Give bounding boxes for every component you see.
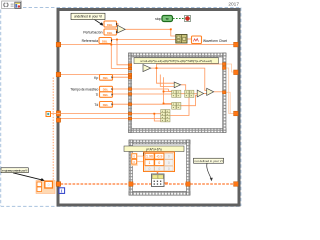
wire: e2 wire into C3 [132, 118, 161, 120]
svg-text:y=A*x+b*u: y=A*x+b*u [146, 147, 162, 151]
tooltip label: not defined in your VI [194, 158, 224, 163]
control terminal Kp (DBL) [94, 75, 113, 81]
svg-text:2017: 2017 [228, 2, 239, 8]
wire: Tiempo de muestreo into structure [113, 88, 130, 90]
svg-text:DBL: DBL [103, 76, 109, 80]
svg-text:0: 0 [168, 155, 170, 159]
wire: Ti into C1 [132, 93, 172, 95]
wire: e out of T1 [151, 68, 207, 90]
op-amp triangle T4 [207, 88, 214, 95]
toolbar icon box top-left [2, 1, 22, 9]
wire: bundle -> chart [187, 38, 192, 40]
wire: e branch up to right tunnel [157, 64, 223, 68]
wire: T4 out -> right tunnel [214, 91, 223, 93]
svg-text:u=u1+Kp*(e-e1)+(Kp*h/Ti)*e+(Kp: u=u1+Kp*(e-e1)+(Kp*h/Ti)*e+(Kp*Td/h)*(e-… [140, 59, 212, 63]
control terminal Ti (DBL) [96, 92, 113, 98]
control terminal s (DBL) [101, 21, 117, 27]
pointer arrow from label to dashed wire [207, 163, 213, 181]
frame bottom band [129, 129, 227, 133]
tunnel right bottom (2D array) [234, 182, 239, 187]
compound node C2 [172, 102, 181, 109]
wire: matrix output down to AxB node [157, 172, 159, 175]
wire: T3 out -> T4 [204, 93, 207, 95]
svg-text:Tiempo de muestreo: Tiempo de muestreo [70, 87, 98, 91]
tunnel right y44.6 [234, 42, 239, 47]
shift register stack left [56, 111, 60, 116]
compound node C1 [172, 90, 181, 97]
wire: branch down into structure tunnel 2 [111, 45, 129, 69]
svg-text:1.96: 1.96 [146, 155, 153, 159]
wire: u1 vertical branch [160, 75, 174, 87]
wire: local var to shift register [51, 113, 57, 115]
svg-text:0: 0 [149, 167, 151, 171]
frame right band [223, 53, 226, 133]
while loop border [58, 10, 239, 206]
small gray icon [11, 4, 14, 5]
svg-text:DBL: DBL [103, 103, 109, 107]
structure-2 tunnels on dashed wire [129, 182, 133, 186]
structure-2 label box [124, 146, 184, 152]
compound node C4 [185, 90, 194, 97]
svg-text:undefined in your VI: undefined in your VI [74, 15, 102, 19]
iteration terminal [i] [59, 188, 65, 194]
wire: left loop tunnel long wire to right loop tunnel [61, 44, 234, 46]
junction dots [110, 28, 171, 114]
wire: S_C (u out) down joins [226, 92, 234, 113]
svg-text:1: 1 [149, 161, 151, 165]
svg-text:0: 0 [48, 183, 50, 187]
wire: triangle output -> joins vertical to bundle [125, 28, 171, 30]
tunnel right y72 [234, 70, 239, 75]
tooltip label: undefined in your VI [71, 13, 105, 19]
frame left band [129, 53, 132, 133]
compound node op marks [162, 92, 192, 121]
structure-1 right tunnels [223, 63, 226, 94]
wire: 2D array dashed vertical outside loop [53, 78, 54, 185]
bundle node [176, 35, 187, 44]
svg-text:DBL: DBL [102, 39, 108, 43]
svg-text:stop: stop [155, 17, 161, 21]
index boxes [131, 153, 138, 166]
control terminal Tiempo de muestreo (DBL) [70, 86, 113, 92]
wire: Kp vertical with branches [164, 77, 172, 103]
wire: Td into structure [113, 103, 130, 105]
wire: h into C1 [169, 89, 172, 91]
wire: Referencia branch down into structure tunnel [117, 40, 129, 65]
svg-text:DBL: DBL [107, 31, 113, 35]
svg-text:-0.9: -0.9 [156, 155, 162, 159]
wire: stop dashed green [173, 18, 184, 20]
structure-1 left tunnels [128, 64, 131, 120]
op-amp triangle T3 [197, 90, 203, 97]
wire: S_A tunnel to loop right tunnel 1 [226, 64, 234, 72]
selection marquee dashed rectangle [1, 8, 241, 207]
tunnel left y74.5 [56, 72, 61, 77]
flat sequence frame top band [129, 53, 227, 133]
empty array constant (bottom-left outside loop) [36, 181, 55, 194]
op-amp triangle T1 (subtract e) [143, 65, 151, 72]
wire: 2D array dashed horizontal bottom [53, 78, 234, 185]
wire: AxB node output stub [164, 182, 168, 184]
svg-text:0: 0 [158, 167, 160, 171]
svg-text:empty array constant in your V: empty array constant in your VI [2, 169, 28, 173]
matrix outer [144, 152, 175, 172]
wire: shift register wires into structure [61, 113, 130, 115]
pale wires right of structure [226, 64, 234, 114]
svg-text:TF: TF [165, 17, 169, 21]
wire: e branch down to T2 input1 [157, 68, 175, 83]
formula label box [134, 58, 219, 64]
svg-text:Ti: Ti [96, 93, 99, 97]
A x B matrix multiply node [152, 174, 165, 187]
svg-text:0: 0 [158, 161, 160, 165]
svg-text:Perturbación: Perturbación [83, 30, 102, 34]
svg-text:Waveform Chart: Waveform Chart [203, 39, 227, 43]
wire: C2 out -> T3 lower input [181, 95, 197, 105]
control terminal Perturbacion (DBL) [83, 29, 117, 35]
wire: T2 out down to C4 [181, 85, 186, 90]
wire: C3 out up to C4 bottom [170, 98, 189, 116]
svg-text:Kp: Kp [94, 76, 98, 80]
svg-text:0: 0 [168, 167, 170, 171]
op-amp triangle T2 [174, 82, 181, 88]
wire: Referencia -> bundle middle input [112, 39, 176, 41]
svg-text:not defined in your VI: not defined in your VI [195, 159, 223, 163]
svg-text:DBL: DBL [107, 23, 113, 27]
wire: branch into subtract triangle top input [171, 29, 176, 36]
wire: e1 wire with junction into C3 [132, 113, 161, 115]
dim cells [145, 153, 173, 171]
wire: terminal s -> bundle (top path) [117, 24, 119, 27]
control terminal Td (DBL) [94, 102, 112, 108]
gear icon [4, 3, 8, 7]
active cells [145, 153, 164, 165]
tunnel left bottom (2D array) [56, 182, 61, 187]
wire: left tunnel y74.5 into structure [61, 74, 130, 76]
svg-text:DBL: DBL [103, 88, 109, 92]
tunnel right y113.5 [234, 111, 239, 116]
wire: Perturbacion -> triangle lower input [117, 31, 118, 33]
svg-text:Referencia: Referencia [82, 39, 99, 43]
cursor arrow 1 [95, 20, 104, 26]
wire: C4 out -> T3 [194, 93, 197, 95]
wire: Td into C2 [132, 103, 172, 105]
tunnel left y44.6 [56, 42, 61, 47]
svg-text:0: 0 [168, 161, 170, 165]
wire: Kp into structure [113, 76, 130, 78]
wire: Ti into structure [113, 93, 130, 95]
op-amp triangle subtract (top) [118, 25, 126, 33]
svg-text:DBL: DBL [103, 93, 109, 97]
tooltip label: empty array constant in your VI [1, 168, 28, 173]
waveform chart indicator terminal [192, 36, 227, 44]
compound node C3 (tall) [161, 110, 170, 122]
colorful VI icon [15, 2, 21, 8]
array constant matrix in structure 2 [131, 152, 175, 172]
svg-text:Td: Td [94, 103, 98, 107]
structure-1 internal wires [132, 64, 223, 121]
wire: S_B tunnel down to loop right tunnel 2 [226, 68, 234, 114]
control terminal Referencia (DBL) [82, 38, 113, 44]
wire: C1 out -> C4 [181, 93, 185, 95]
stop boolean control [155, 16, 172, 22]
svg-text:i: i [61, 189, 62, 194]
loop condition stop-sign terminal [185, 16, 191, 22]
cursor arrow 2 [13, 173, 45, 181]
local variable icon outside loop [46, 112, 51, 117]
